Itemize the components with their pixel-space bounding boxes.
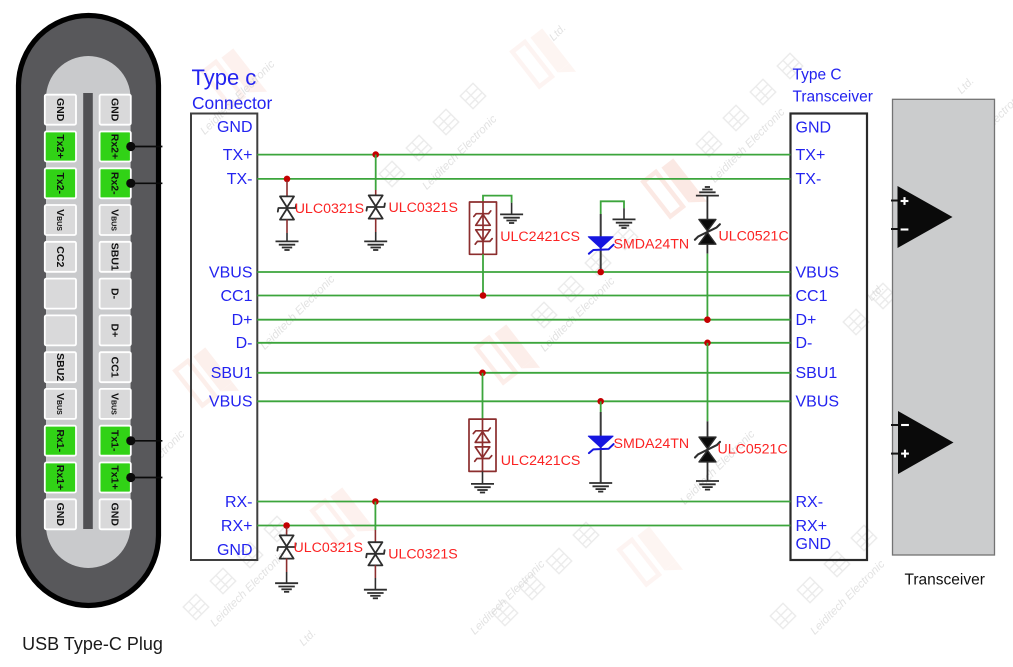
wire D1 ground stub: [286, 233, 288, 241]
pin tap wire Rx2-: [126, 179, 162, 188]
plug pin SBU2 (left): [45, 352, 76, 382]
svg-text:D+: D+: [232, 312, 253, 329]
wire D2 ground stub: [375, 232, 377, 241]
ground D7: [275, 583, 298, 592]
pin tap wire Tx1+: [126, 473, 162, 482]
wire U1 to ground bend: [483, 196, 512, 203]
svg-text:D+: D+: [109, 324, 121, 338]
wire U1 to CC1: [482, 254, 484, 295]
svg-text:D-: D-: [796, 335, 813, 352]
svg-text:Connector: Connector: [192, 93, 272, 113]
plug inner tongue: [46, 56, 131, 568]
wire U2 ground stub: [482, 471, 484, 484]
wire D2 drop: [375, 155, 377, 190]
junction VBUS / D5: [597, 398, 604, 405]
svg-text:D-: D-: [109, 288, 121, 300]
wire net VBUS2: [257, 400, 790, 402]
plug pin Rx2+ (right): [100, 132, 131, 162]
svg-text:USB Type-C Plug: USB Type-C Plug: [22, 634, 163, 654]
plug pin Tx1- (right): [100, 426, 131, 456]
svg-text:D+: D+: [796, 312, 817, 329]
TVS diode D3 SMDA24TN: [588, 237, 613, 254]
plug pin VBUS (left): [45, 389, 76, 419]
plug pin blank (left): [45, 279, 76, 309]
svg-text:CC1: CC1: [796, 288, 828, 305]
plug center bar: [83, 93, 93, 529]
pin tap wire Tx1-: [126, 436, 162, 445]
wire D2 to ground: [375, 219, 377, 233]
svg-text:Transceiver: Transceiver: [793, 89, 873, 106]
plug pin D- (right): [100, 279, 131, 309]
wire D8 drop: [374, 502, 376, 531]
svg-text:Type C: Type C: [793, 67, 842, 84]
svg-text:RX-: RX-: [796, 494, 824, 511]
svg-text:RX+: RX+: [796, 518, 828, 535]
wire net SBU1: [257, 372, 790, 374]
svg-text:ULC2421CS: ULC2421CS: [501, 453, 581, 469]
ground D3: [613, 219, 636, 228]
ground U2: [471, 484, 494, 493]
svg-text:GND: GND: [54, 98, 66, 122]
plug pin VBUS (left): [45, 205, 76, 235]
junction SBU1 / U2: [479, 370, 486, 377]
svg-text:Rx1+: Rx1+: [54, 465, 66, 490]
svg-text:VBUS: VBUS: [796, 264, 840, 281]
plug pin CC2 (left): [45, 242, 76, 272]
svg-text:ULC0321S: ULC0321S: [294, 540, 363, 556]
svg-text:TX-: TX-: [227, 171, 253, 188]
svg-text:VBUS: VBUS: [796, 394, 840, 411]
plug pin SBU1 (right): [100, 242, 131, 272]
plug pin Tx2- (left): [45, 168, 76, 198]
svg-text:Rx1-: Rx1-: [54, 429, 66, 452]
TVS diode D5 SMDA24TN: [588, 436, 613, 453]
plug pin Rx2- (right): [100, 168, 131, 198]
svg-text:GND: GND: [796, 119, 832, 136]
wire net D+: [257, 319, 790, 321]
wire net RX+: [257, 525, 790, 527]
wire D7 ground stub: [286, 572, 288, 583]
op-amp A1 (top): [891, 186, 953, 248]
svg-text:SMDA24TN: SMDA24TN: [614, 436, 690, 452]
wire D5 body line: [600, 412, 602, 483]
Type C transceiver box: [791, 114, 868, 561]
junction RX- / D8: [372, 498, 379, 505]
plug pin GND (left): [45, 499, 76, 529]
junction D- / D6: [704, 340, 711, 347]
ground D1: [276, 241, 299, 250]
svg-text:RX+: RX+: [221, 518, 253, 535]
wire D1 anode stub: [286, 181, 288, 197]
op-amp A2 (bottom): [891, 411, 954, 474]
junction CC1 / U1: [480, 292, 487, 299]
wire D4 to D+: [706, 254, 708, 320]
svg-text:GND: GND: [217, 542, 253, 559]
wire net CC1: [257, 295, 790, 297]
wire D7 to ground: [286, 558, 288, 572]
junction VBUS / D3: [597, 269, 604, 276]
wire D7 anode stub: [286, 527, 288, 536]
svg-text:GND: GND: [54, 503, 66, 527]
TVS diode D1 ULC0321S: [278, 196, 296, 219]
wire net TX-: [257, 178, 790, 180]
ground U1: [500, 214, 523, 223]
svg-text:TX+: TX+: [796, 147, 826, 164]
wire D3 to ground bend: [601, 201, 624, 214]
ground D5: [589, 483, 612, 492]
TVS diode D2 ULC0321S: [367, 195, 385, 218]
svg-text:ULC0321S: ULC0321S: [388, 546, 457, 562]
wire D3 ground stub: [623, 208, 625, 219]
svg-text:TX+: TX+: [223, 147, 253, 164]
svg-text:Tx1-: Tx1-: [109, 430, 121, 452]
svg-text:ULC0321S: ULC0321S: [389, 200, 458, 216]
plug pin GND (right): [100, 499, 131, 529]
svg-text:GND: GND: [109, 503, 121, 527]
svg-text:VBUS: VBUS: [209, 394, 253, 411]
wire D1 to ground: [286, 220, 288, 234]
svg-text:CC1: CC1: [220, 288, 252, 305]
junction D+ / D4: [704, 316, 711, 323]
svg-text:SBU1: SBU1: [796, 365, 838, 382]
svg-text:SMDA24TN: SMDA24TN: [614, 237, 690, 253]
plug pin Rx1- (left): [45, 426, 76, 456]
svg-text:CC1: CC1: [109, 357, 121, 378]
svg-text:D-: D-: [236, 335, 253, 352]
wire D4 body line: [706, 196, 708, 254]
wire D3 body line: [600, 214, 602, 272]
TVS diode D7 ULC0321S: [277, 535, 295, 558]
TVS diode D8 ULC0321S: [366, 542, 384, 565]
ESD array U1 ULC2421CS: [470, 202, 497, 254]
svg-text:SBU1: SBU1: [109, 243, 121, 271]
svg-text:Type c: Type c: [192, 65, 257, 90]
svg-text:ULC2421CS: ULC2421CS: [500, 229, 580, 245]
svg-text:ULC0521C: ULC0521C: [718, 441, 788, 457]
svg-text:GND: GND: [796, 536, 832, 553]
svg-text:Rx2+: Rx2+: [109, 134, 121, 159]
svg-text:RX-: RX-: [225, 494, 253, 511]
wire D8 to ground: [374, 565, 376, 578]
svg-text:GND: GND: [217, 119, 253, 136]
wire net VBUS: [257, 271, 790, 273]
wire D8 anode stub: [374, 530, 376, 542]
plug pin CC1 (right): [100, 352, 131, 382]
plug pin Tx1+ (right): [100, 463, 131, 493]
junction RX+ / D7: [283, 522, 290, 529]
svg-text:ULC0321S: ULC0321S: [295, 201, 364, 217]
junction TX+ / D2: [372, 151, 379, 158]
wire D6 from D-: [707, 343, 709, 422]
svg-text:Tx1+: Tx1+: [109, 465, 121, 489]
svg-text:Tx2-: Tx2-: [54, 172, 66, 194]
svg-text:GND: GND: [109, 98, 121, 122]
svg-text:CC2: CC2: [54, 246, 66, 267]
plug pin Rx1+ (left): [45, 463, 76, 493]
wire U2 from SBU1: [482, 373, 484, 419]
plug pin VBUS (right): [100, 389, 131, 419]
svg-text:Transceiver: Transceiver: [904, 572, 984, 589]
wire D5 stub: [600, 401, 602, 412]
svg-text:SBU2: SBU2: [54, 353, 66, 381]
TVS diode D4 ULC0521C: [695, 219, 720, 244]
junction TX- / D1: [284, 176, 291, 183]
plug pin VBUS (right): [100, 205, 131, 235]
plug pin GND (left): [45, 95, 76, 125]
Type C connector box: [191, 114, 257, 561]
plug pin blank (left): [45, 315, 76, 345]
plug pin Tx2+ (left): [45, 132, 76, 162]
svg-text:VBUS: VBUS: [209, 264, 253, 281]
plug pin D+ (right): [100, 315, 131, 345]
wire D2 anode stub: [375, 190, 377, 196]
wire U1 ground stub: [511, 203, 513, 215]
svg-text:ULC0521C: ULC0521C: [719, 228, 789, 244]
ground D6: [696, 481, 719, 490]
wire net RX-: [257, 501, 790, 503]
TVS diode D6 ULC0521C: [695, 437, 720, 462]
wire net TX+: [257, 154, 790, 156]
pin tap wire Rx2+: [126, 142, 162, 151]
ground D4 (inverted): [696, 187, 719, 196]
svg-text:Rx2-: Rx2-: [109, 172, 121, 195]
plug pin GND (right): [100, 95, 131, 125]
USB Type-C plug shell: [19, 16, 159, 606]
svg-text:SBU1: SBU1: [211, 365, 253, 382]
wire D8 ground stub: [374, 578, 376, 590]
ground D8: [364, 590, 387, 599]
ground D2: [364, 241, 387, 250]
wire net D-: [257, 342, 790, 344]
svg-text:TX-: TX-: [796, 171, 822, 188]
svg-text:Tx2+: Tx2+: [54, 134, 66, 158]
ESD array U2 ULC2421CS: [469, 419, 496, 471]
wire D6 body line: [707, 421, 709, 481]
transceiver IC block: [893, 99, 995, 555]
